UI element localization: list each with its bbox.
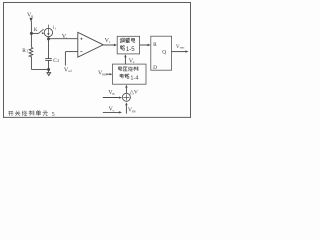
svg-text:FB: FB xyxy=(132,109,136,113)
svg-text:1: 1 xyxy=(55,27,57,31)
svg-text:1-5: 1-5 xyxy=(126,47,135,53)
wire VFB riser with arrow xyxy=(125,105,127,114)
op-amp minus pin xyxy=(80,50,82,52)
svg-text:1: 1 xyxy=(109,40,111,44)
wire VB arrow down xyxy=(29,18,32,22)
wire Vi node to op-amp plus input xyxy=(49,38,78,40)
svg-text:o: o xyxy=(113,108,115,112)
wire V2 riser with arrow xyxy=(124,57,126,64)
wire C2 bottom to ground xyxy=(48,60,50,72)
wire op-amp minus to Vref stub xyxy=(65,51,77,53)
caption: switch control unit 5 xyxy=(8,110,13,112)
wire R1 bottom corner to ground net xyxy=(30,57,32,70)
svg-text:1: 1 xyxy=(26,49,28,53)
wire Q output Vsens arrow xyxy=(172,51,186,53)
op-amp plus pin xyxy=(80,38,82,40)
ground symbol xyxy=(47,73,51,76)
op-amp U1 xyxy=(78,32,103,57)
svg-text:K: K xyxy=(34,28,38,33)
block: adjust circuit 1-5 xyxy=(117,36,139,54)
resistor R1 xyxy=(29,47,33,56)
border frame xyxy=(3,2,5,118)
svg-text:D: D xyxy=(153,65,157,71)
switch K blade xyxy=(38,29,44,34)
wire adjust block to latch arrow xyxy=(140,44,148,46)
wire VB input arrow xyxy=(103,97,120,99)
wire Vo input arrow xyxy=(103,111,119,113)
wire dV riser with arrow xyxy=(125,87,127,93)
arrowhead into current source xyxy=(42,32,44,34)
svg-text:5: 5 xyxy=(52,112,55,118)
block text line1 xyxy=(119,37,122,39)
current source I1 circle xyxy=(44,28,52,36)
svg-text:R: R xyxy=(153,42,157,48)
junction dot Vi node xyxy=(47,37,50,40)
block text line1 xyxy=(118,66,121,68)
wire current source down to Vi node and C2 xyxy=(48,37,50,59)
wire node to switch K xyxy=(31,32,38,34)
block: voltage control circuit 1-4 xyxy=(113,64,147,84)
svg-text:i: i xyxy=(66,36,67,40)
block text line2 xyxy=(120,73,123,75)
svg-text:1-4: 1-4 xyxy=(130,75,138,81)
block text line2 xyxy=(120,45,122,47)
wire op-amp output V1 arrow xyxy=(103,44,114,46)
junction dot at switch node xyxy=(30,32,33,35)
svg-text:2: 2 xyxy=(57,58,59,63)
wire VREF arrow into block xyxy=(106,73,110,75)
svg-text:Q: Q xyxy=(162,49,166,55)
svg-text:△V: △V xyxy=(130,89,138,95)
capacitor C2 plates xyxy=(45,58,52,60)
wire VB down to switch node xyxy=(30,21,32,47)
latch U2 box xyxy=(151,36,172,70)
junction dot ground net xyxy=(47,68,50,71)
svg-text:2: 2 xyxy=(133,60,135,64)
current source arrow down xyxy=(47,25,49,34)
svg-text:sens: sens xyxy=(180,47,185,50)
summing node circle xyxy=(122,93,130,101)
